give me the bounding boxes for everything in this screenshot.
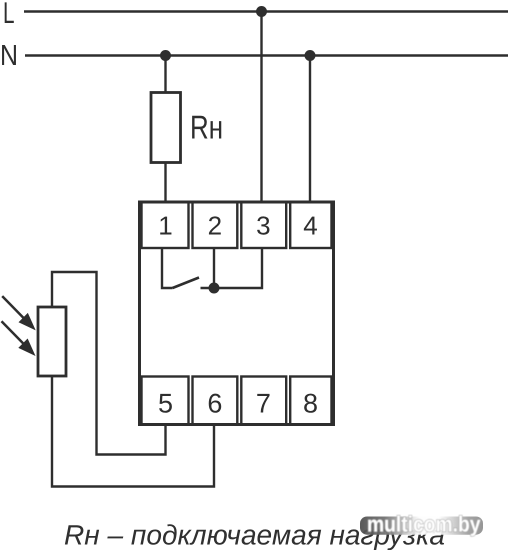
light arrow 1 head xyxy=(20,314,34,329)
terminal 7 box xyxy=(241,377,286,425)
wire from resistor Rн down to terminal 1 xyxy=(164,163,166,203)
light arrow 2 head xyxy=(20,340,34,355)
wire sensor bottom to terminal 6 xyxy=(52,376,214,487)
terminal 8 box xyxy=(290,377,331,425)
node contact dot under terminal 2 xyxy=(209,283,220,294)
resistor Rн (load) xyxy=(151,93,181,163)
light arrow 2 shaft xyxy=(2,321,24,344)
wire from L node down to terminal 3 xyxy=(260,12,262,203)
wire from contact dot up to terminal 2 xyxy=(213,248,215,288)
svg-text:4: 4 xyxy=(303,211,317,241)
wire from N node down to resistor Rн xyxy=(164,56,166,93)
svg-text:multicom.by: multicom.by xyxy=(367,512,481,537)
wire from contact dot to terminal 3 xyxy=(201,248,263,288)
terminal 2 box xyxy=(193,202,238,248)
svg-text:8: 8 xyxy=(303,389,318,419)
svg-text:L: L xyxy=(3,0,15,30)
light arrow 1 shaft xyxy=(2,296,24,318)
svg-text:1: 1 xyxy=(158,211,172,241)
wire N line xyxy=(25,54,508,56)
svg-text:5: 5 xyxy=(158,389,173,419)
terminal 5 box xyxy=(142,377,189,425)
svg-text:7: 7 xyxy=(256,389,271,419)
terminal 1 box xyxy=(142,202,189,248)
node junction dot on L line above terminal 3 xyxy=(256,6,267,17)
wire from N node down to terminal 4 xyxy=(309,56,311,203)
terminal 6 box xyxy=(193,377,238,425)
relay device outline box xyxy=(140,202,334,425)
node junction dot on N line above terminal 4 xyxy=(305,50,316,61)
terminal 4 box xyxy=(290,202,331,248)
switch contact wiring from terminal 1 (pivot side) xyxy=(162,248,173,288)
switch blade (open contact) xyxy=(173,278,200,289)
wire sensor top to terminal 5 xyxy=(52,272,166,455)
terminal 3 box xyxy=(241,202,286,248)
svg-text:3: 3 xyxy=(256,211,270,241)
svg-text:Rн: Rн xyxy=(190,109,223,146)
svg-text:N: N xyxy=(0,40,18,72)
svg-text:6: 6 xyxy=(207,389,222,419)
svg-text:2: 2 xyxy=(208,211,222,241)
node junction dot on N line above resistor xyxy=(160,50,171,61)
watermark multicom.by pill xyxy=(360,517,483,535)
photo sensor body xyxy=(38,307,66,376)
wire L line xyxy=(24,10,508,12)
